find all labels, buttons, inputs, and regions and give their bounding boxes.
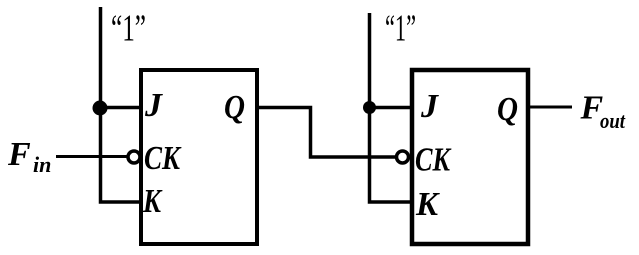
svg-text:J: J bbox=[420, 88, 439, 125]
svg-text:K: K bbox=[142, 183, 163, 220]
svg-text:CK: CK bbox=[415, 142, 452, 179]
svg-text:“1”: “1” bbox=[111, 8, 146, 50]
svg-text:Q: Q bbox=[224, 89, 245, 126]
svg-text:Q: Q bbox=[497, 91, 518, 128]
svg-text:CK: CK bbox=[144, 140, 182, 177]
svg-text:F: F bbox=[7, 136, 31, 173]
svg-text:out: out bbox=[600, 108, 626, 133]
svg-text:K: K bbox=[415, 186, 440, 223]
svg-text:in: in bbox=[33, 152, 51, 177]
svg-text:“1”: “1” bbox=[385, 8, 416, 50]
svg-text:J: J bbox=[144, 87, 163, 124]
